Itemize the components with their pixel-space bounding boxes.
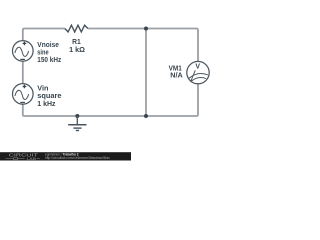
wire middle vertical branch [145,29,147,117]
wire top-left: from Vnoise top up and right to resistor [23,29,65,41]
wire between sources [22,61,24,84]
svg-text:1 kHz: 1 kHz [37,99,55,108]
voltmeter VM1 [187,61,209,83]
minus sign Vnoise [20,58,25,60]
svg-text:http://circuitlab.com/c/e5msme: http://circuitlab.com/c/e5msme3f/asdmse3… [45,156,110,160]
node junction top [144,27,148,31]
svg-text:1 kΩ: 1 kΩ [69,45,85,54]
svg-text:V: V [195,63,200,70]
svg-text:LAB: LAB [27,156,37,161]
voltage source V1 Vnoise (sine) [12,41,33,62]
node junction ground tap [75,114,79,118]
svg-text:150 kHz: 150 kHz [37,55,61,64]
wire bottom rail: from Vin bottom down, right, up to voltmeter bottom [23,84,198,116]
svg-text:N/A: N/A [170,70,182,79]
plus sign Vin [23,85,27,89]
meter needle [191,70,196,81]
node junction bottom [144,114,148,118]
voltage source V2 Vin (square) [12,84,33,105]
ground [68,116,86,131]
CircuitLab logo second line motif [6,157,41,159]
sine wave inside Vnoise [15,47,29,56]
meter scale arc inner [191,77,207,81]
sine wave inside Vin [15,90,29,99]
resistor R1 zigzag [65,25,88,32]
minus sign Vin [20,101,25,103]
plus sign Vnoise [23,42,27,46]
meter scale arc outer [189,74,208,79]
footer black bar [0,152,131,160]
wire top-right: from resistor right to corner and down to voltmeter [88,29,198,62]
